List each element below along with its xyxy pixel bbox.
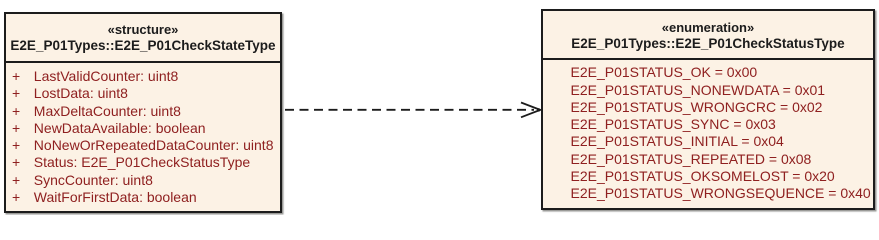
literal E2E_P01STATUS_NONEWDATA (571, 83, 826, 97)
attribute Status (12, 155, 20, 169)
header/literal divider (543, 58, 873, 60)
attribute LostData (12, 86, 20, 100)
attribute NewDataAvailable (12, 121, 20, 135)
literal E2E_P01STATUS_REPEATED (571, 152, 812, 166)
attribute LastValidCounter (12, 69, 20, 83)
literal E2E_P01STATUS_OK (571, 65, 758, 79)
literal E2E_P01STATUS_OKSOMELOST (571, 169, 835, 183)
literal E2E_P01STATUS_SYNC (571, 117, 776, 131)
attribute NoNewOrRepeatedDataCounter (12, 138, 20, 152)
attribute SyncCounter (12, 173, 20, 187)
stereotype «structure» (6, 23, 280, 36)
header/attribute divider (6, 61, 280, 63)
literal E2E_P01STATUS_INITIAL (571, 134, 784, 148)
stereotype «enumeration» (543, 21, 873, 34)
class name E2E_P01Types::E2E_P01CheckStateType (6, 39, 280, 53)
attribute WaitForFirstData (12, 190, 20, 204)
literal E2E_P01STATUS_WRONGSEQUENCE (571, 186, 871, 200)
open arrowhead (521, 103, 540, 118)
attribute MaxDeltaCounter (12, 104, 20, 118)
wire dashed shaft (285, 109, 534, 111)
structure class box E2E_P01Types::E2E_P01CheckStateType (4, 12, 282, 213)
literal E2E_P01STATUS_WRONGCRC (571, 100, 823, 114)
enum name E2E_P01Types::E2E_P01CheckStatusType (543, 37, 873, 51)
arrowhead tip dot (537, 108, 540, 111)
enumeration box E2E_P01Types::E2E_P01CheckStatusType (541, 9, 875, 210)
